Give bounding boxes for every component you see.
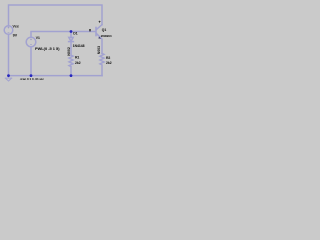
- svg-text:R2: R2: [106, 56, 110, 60]
- svg-text:Q1: Q1: [102, 28, 107, 32]
- svg-text:9V: 9V: [13, 33, 18, 37]
- svg-text:2k2: 2k2: [106, 61, 112, 65]
- svg-text:D1: D1: [73, 31, 77, 35]
- svg-text:Vcc: Vcc: [13, 24, 19, 28]
- svg-text:V1: V1: [36, 36, 40, 40]
- svg-text:PWL(0 -5 1 5): PWL(0 -5 1 5): [35, 46, 60, 51]
- svg-text:.tran 0 1 0 .01 uic: .tran 0 1 0 .01 uic: [20, 77, 45, 81]
- svg-text:2k2: 2k2: [75, 61, 81, 65]
- svg-text:1N4148: 1N4148: [73, 44, 85, 48]
- svg-text:R1: R1: [75, 56, 79, 60]
- svg-text:N003: N003: [97, 46, 101, 54]
- svg-text:2N3904: 2N3904: [101, 34, 112, 38]
- svg-text:N002: N002: [67, 47, 71, 56]
